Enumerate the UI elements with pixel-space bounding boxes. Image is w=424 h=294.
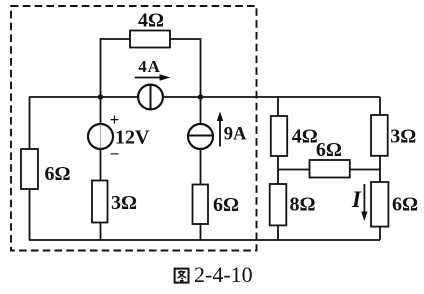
wire bottom bus [29, 239, 380, 241]
svg-text:6Ω: 6Ω [392, 194, 418, 216]
resistor 4Ω (top) [130, 31, 170, 48]
resistor 3Ω (12V branch) [92, 181, 108, 223]
wire top loop left [101, 39, 131, 97]
svg-text:6Ω: 6Ω [213, 194, 239, 216]
svg-text:3Ω: 3Ω [111, 192, 137, 214]
arrow I (down) [361, 184, 367, 221]
voltage source 12V [88, 124, 113, 149]
resistor 6Ω (bridge) [310, 160, 350, 178]
dashed network boundary [11, 6, 257, 251]
svg-text:12V: 12V [115, 127, 150, 149]
wire right-right rail [379, 97, 381, 240]
svg-text:6Ω: 6Ω [44, 163, 70, 185]
svg-text:2-4-10: 2-4-10 [194, 262, 253, 287]
svg-text:4Ω: 4Ω [138, 10, 164, 32]
junction node at 9A branch [198, 94, 203, 99]
wire 9A branch [200, 97, 202, 240]
svg-text:8Ω: 8Ω [289, 194, 315, 216]
resistor 6Ω (9A branch) [193, 185, 209, 225]
svg-text:4Ω: 4Ω [292, 126, 318, 148]
svg-text:−: − [110, 145, 120, 164]
resistor 6Ω (right bottom) [371, 182, 388, 227]
wire middle bridge [278, 169, 380, 171]
resistor 3Ω (right) [371, 115, 388, 156]
svg-text:6Ω: 6Ω [316, 139, 342, 161]
svg-text:4A: 4A [138, 57, 160, 76]
wire main top bus [29, 96, 380, 98]
wire 12V branch [100, 97, 102, 240]
svg-text:9A: 9A [224, 125, 247, 145]
junction node at 12V branch [98, 94, 103, 99]
resistor 8Ω [270, 184, 287, 225]
wire top loop right [170, 39, 201, 97]
wire right-left rail [277, 97, 279, 240]
wire left rail [29, 97, 31, 240]
resistor 4Ω (right) [271, 116, 287, 156]
current source 9A [188, 124, 213, 149]
caption 图 glyph [175, 269, 189, 283]
svg-text:3Ω: 3Ω [390, 126, 416, 148]
current source 4A (inline on top bus) [138, 85, 163, 110]
arrow 4A (right) [135, 74, 171, 81]
resistor 6Ω (left) [21, 149, 38, 189]
svg-text:I: I [351, 187, 362, 212]
arrow 9A (up) [217, 112, 223, 147]
